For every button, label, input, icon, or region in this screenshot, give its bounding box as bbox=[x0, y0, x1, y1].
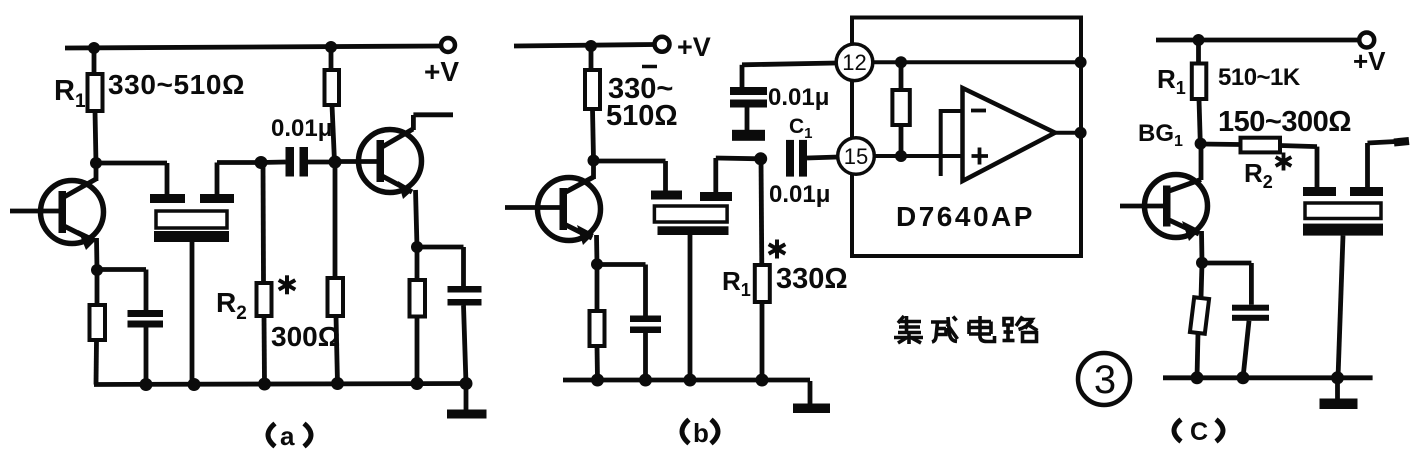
svg-text:3: 3 bbox=[1094, 358, 1116, 402]
svg-text:R1: R1 bbox=[54, 75, 86, 112]
svg-text:+V: +V bbox=[424, 56, 459, 87]
svg-text:b: b bbox=[693, 418, 709, 448]
svg-text:C: C bbox=[1190, 418, 1208, 446]
svg-text:0.01μ: 0.01μ bbox=[769, 181, 830, 208]
svg-text:12: 12 bbox=[842, 50, 866, 75]
svg-text:D7640AP: D7640AP bbox=[896, 201, 1035, 232]
svg-text:C1: C1 bbox=[789, 115, 813, 142]
svg-text:a: a bbox=[280, 421, 295, 451]
svg-text:330Ω: 330Ω bbox=[776, 263, 848, 295]
svg-text:+V: +V bbox=[677, 32, 711, 62]
svg-text:R1: R1 bbox=[1157, 64, 1186, 98]
svg-text:0.01μ: 0.01μ bbox=[768, 84, 829, 111]
svg-text:R2: R2 bbox=[1244, 158, 1273, 192]
svg-text:510~1K: 510~1K bbox=[1218, 64, 1301, 91]
svg-text:300Ω: 300Ω bbox=[271, 321, 340, 352]
svg-text:+V: +V bbox=[1353, 46, 1386, 76]
svg-text:330~510Ω: 330~510Ω bbox=[108, 69, 245, 100]
svg-text:R1: R1 bbox=[722, 266, 751, 300]
svg-text:0.01μ: 0.01μ bbox=[271, 115, 332, 142]
svg-text:150~300Ω: 150~300Ω bbox=[1218, 106, 1351, 138]
svg-text:15: 15 bbox=[844, 144, 868, 169]
svg-text:R2: R2 bbox=[216, 287, 247, 324]
svg-text:510Ω: 510Ω bbox=[606, 100, 678, 132]
svg-text:BG1: BG1 bbox=[1138, 120, 1183, 150]
